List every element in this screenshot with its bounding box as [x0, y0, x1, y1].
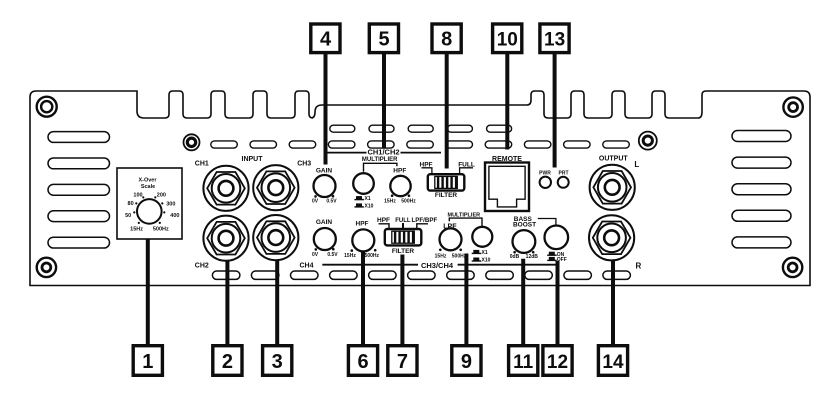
corner screw top-left: [37, 97, 57, 117]
svg-text:0V: 0V: [312, 198, 319, 204]
svg-text:3: 3: [272, 351, 283, 373]
small screw near inputs: [184, 134, 200, 150]
svg-text:15Hz: 15Hz: [344, 253, 356, 259]
svg-text:13: 13: [544, 29, 565, 50]
callout box 7: [388, 346, 417, 376]
svg-text:2: 2: [222, 351, 233, 373]
svg-text:12dB: 12dB: [526, 254, 539, 260]
svg-text:CH1/CH2: CH1/CH2: [367, 147, 399, 156]
RCA input CH3: [253, 165, 298, 210]
svg-text:L: L: [634, 160, 639, 169]
leader line 9: [464, 254, 468, 346]
OUTPUT label: [599, 155, 639, 169]
svg-text:15Hz: 15Hz: [435, 254, 447, 260]
filter switch CH3/CH4: [377, 217, 438, 255]
svg-text:FILTER: FILTER: [392, 248, 415, 255]
svg-text:4: 4: [320, 28, 332, 50]
callout box 2: [213, 346, 242, 376]
RCA input CH4: [253, 215, 298, 260]
svg-text:400: 400: [170, 213, 179, 219]
svg-text:500Hz: 500Hz: [365, 253, 380, 259]
leader line 13: [553, 54, 557, 168]
svg-text:6: 6: [357, 351, 368, 373]
svg-text:500Hz: 500Hz: [401, 198, 416, 204]
svg-text:1: 1: [142, 351, 153, 373]
svg-text:HPF: HPF: [393, 168, 406, 175]
svg-text:0dB: 0dB: [510, 254, 520, 260]
bass boost knob: [510, 230, 539, 260]
filter switch CH1/CH2: [420, 161, 475, 199]
RCA output R: [589, 215, 634, 260]
REMOTE port: [485, 156, 529, 211]
callout box 10: [493, 24, 522, 53]
svg-text:500Hz: 500Hz: [153, 227, 169, 233]
svg-text:CH4: CH4: [299, 262, 313, 269]
svg-text:15Hz: 15Hz: [130, 227, 143, 233]
svg-text:80: 80: [128, 201, 134, 207]
svg-text:HPF: HPF: [377, 217, 390, 224]
svg-text:12: 12: [547, 352, 568, 373]
leader line 12: [556, 261, 560, 346]
callout box 5: [369, 24, 398, 53]
leader line 4: [324, 54, 328, 165]
svg-text:FULL: FULL: [395, 218, 411, 224]
svg-text:HPF: HPF: [356, 220, 369, 227]
svg-text:10: 10: [497, 29, 518, 50]
svg-text:0.5V: 0.5V: [326, 198, 337, 204]
callout box 9: [452, 346, 481, 376]
gain knob CH3/CH4: [312, 219, 338, 258]
svg-text:GAIN: GAIN: [316, 219, 333, 226]
bottom small slot row: [212, 271, 630, 279]
middle small slot row: [211, 141, 630, 148]
svg-text:OUTPUT: OUTPUT: [599, 155, 629, 162]
PWR LED: [539, 170, 551, 188]
callout box 3: [263, 346, 292, 376]
svg-text:X-Over: X-Over: [138, 178, 157, 184]
corner screw bottom-left: [37, 258, 56, 277]
svg-text:CH3/CH4: CH3/CH4: [421, 261, 454, 270]
svg-text:PRT: PRT: [559, 170, 569, 176]
svg-text:CH3: CH3: [297, 160, 311, 167]
svg-text:8: 8: [441, 28, 452, 50]
leader line 8: [445, 54, 449, 169]
callout box 6: [348, 346, 377, 376]
svg-text:Scale: Scale: [141, 184, 155, 190]
multiplier knob CH1/CH2: [353, 163, 397, 209]
svg-text:FILTER: FILTER: [435, 192, 458, 199]
CH1/CH2 section bracket: [324, 147, 441, 163]
RCA output L: [590, 165, 635, 210]
svg-text:INPUT: INPUT: [242, 156, 264, 163]
svg-text:0.5V: 0.5V: [327, 252, 338, 258]
callout box 12: [543, 346, 572, 376]
hpf knob CH3/CH4: [344, 220, 379, 258]
callout box 14: [598, 346, 627, 376]
X-Over scale box: [117, 168, 182, 239]
amplifier panel outline with heatsink fins: [30, 91, 810, 286]
svg-text:PWR: PWR: [539, 170, 551, 176]
leader line 3: [275, 260, 279, 346]
svg-text:X1: X1: [365, 196, 371, 202]
upper small slot row: [330, 125, 512, 132]
svg-text:LPF/BPF: LPF/BPF: [412, 217, 438, 224]
PRT LED: [558, 170, 569, 188]
bass boost on/off knob: [545, 226, 569, 264]
callout box 4: [311, 24, 340, 53]
gain knob CH1/CH2: [312, 168, 337, 205]
callout box 11: [509, 346, 538, 376]
svg-text:0V: 0V: [312, 252, 319, 258]
BASS BOOST label: [513, 216, 556, 228]
lpf knob CH3/CH4: [435, 224, 467, 260]
CH3/CH4 section bracket: [299, 261, 557, 270]
hpf knob CH1/CH2: [384, 168, 416, 205]
svg-text:GAIN: GAIN: [316, 168, 333, 175]
svg-text:CH1: CH1: [195, 160, 209, 167]
leader line 7: [400, 255, 404, 346]
leader line 6: [361, 251, 365, 346]
svg-text:X1: X1: [482, 250, 488, 256]
leader line 5: [382, 54, 386, 148]
RCA input CH2: [203, 216, 248, 261]
callout box 13: [540, 24, 569, 53]
leader line 1: [146, 239, 150, 346]
svg-text:R: R: [636, 262, 642, 271]
leader line 2: [225, 261, 229, 346]
svg-text:CH2: CH2: [195, 262, 209, 269]
left vent slots: [48, 132, 110, 248]
leader line 10: [505, 54, 509, 150]
svg-text:100: 100: [133, 193, 142, 199]
svg-text:200: 200: [157, 193, 166, 199]
RCA input CH1: [203, 166, 248, 211]
leader line 14: [611, 261, 615, 346]
corner screw top-right: [783, 97, 802, 116]
svg-text:9: 9: [461, 351, 472, 373]
small screw near outputs: [639, 132, 657, 150]
svg-text:7: 7: [397, 351, 408, 373]
callout box 1: [133, 346, 162, 376]
svg-text:50: 50: [125, 213, 131, 219]
callout box 8: [432, 24, 461, 53]
multiplier knob CH3/CH4: [448, 213, 493, 264]
svg-text:X10: X10: [365, 204, 374, 210]
leader line 11: [521, 259, 525, 346]
corner screw bottom-right: [783, 258, 802, 277]
right vent slots: [732, 131, 791, 248]
svg-text:5: 5: [378, 28, 389, 50]
svg-text:X10: X10: [482, 258, 491, 264]
svg-text:MULTIPLIER: MULTIPLIER: [362, 157, 398, 163]
svg-text:14: 14: [602, 352, 624, 373]
svg-text:BOOST: BOOST: [513, 222, 536, 229]
svg-text:11: 11: [513, 352, 534, 373]
svg-text:15Hz: 15Hz: [384, 198, 396, 204]
svg-text:300: 300: [166, 202, 175, 208]
